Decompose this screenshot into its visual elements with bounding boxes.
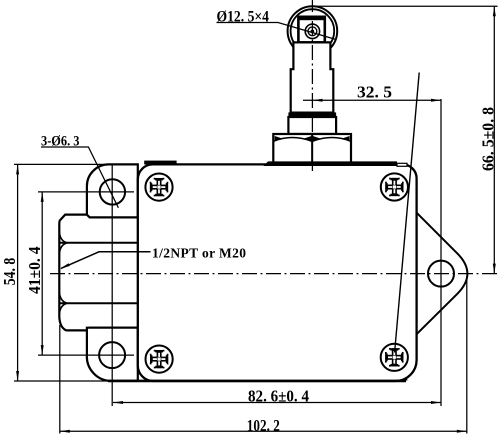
- svg-text:41±0. 4: 41±0. 4: [25, 247, 44, 295]
- svg-text:54. 8: 54. 8: [0, 258, 19, 286]
- svg-text:1/2NPT or M20: 1/2NPT or M20: [152, 246, 246, 261]
- svg-text:102. 2: 102. 2: [247, 416, 280, 435]
- svg-text:66. 5±0. 8: 66. 5±0. 8: [479, 107, 498, 171]
- svg-text:Ø12. 5×4: Ø12. 5×4: [217, 9, 270, 26]
- svg-text:32. 5: 32. 5: [357, 82, 392, 101]
- svg-text:82. 6±0. 4: 82. 6±0. 4: [248, 387, 309, 406]
- svg-text:3-Ø6. 3: 3-Ø6. 3: [41, 134, 80, 150]
